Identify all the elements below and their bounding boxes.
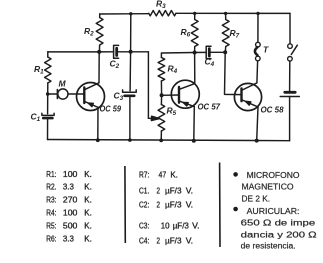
wire mic junction down to C1: [47, 94, 49, 114]
node mic junction: [46, 92, 50, 96]
svg-text:R5:: R5:: [46, 220, 56, 230]
svg-text:dancia y 200 Ω: dancia y 200 Ω: [241, 230, 317, 239]
wire C1 to bottom rail: [47, 120, 49, 140]
wire R6 bottom to C4 left: [195, 51, 206, 53]
node junction R6 bottom / OC57 collector / C4: [193, 51, 197, 55]
svg-text:3.3: 3.3: [63, 182, 74, 192]
wire switch to battery: [289, 61, 291, 91]
wire OC58 collector up to earphone: [256, 61, 259, 83]
svg-text:MICROFONO: MICROFONO: [247, 171, 300, 180]
svg-text:M: M: [59, 79, 67, 89]
svg-text:V.: V.: [186, 200, 193, 210]
node junction C3 / bottom rail: [128, 138, 132, 142]
svg-text:C1: C1: [31, 112, 41, 124]
node junction OC58 emitter / bottom rail: [255, 139, 259, 143]
wire top rail corner down to switch: [289, 13, 291, 43]
wire R1 bottom to mic junction: [47, 83, 49, 94]
wire junction down to C3: [129, 52, 132, 91]
divider line 2: [219, 163, 221, 248]
svg-text:K.: K.: [84, 169, 92, 179]
svg-text:R1:: R1:: [46, 169, 56, 179]
wire top rail down to earphone: [257, 13, 259, 42]
wire battery to bottom rail corner: [289, 97, 291, 141]
wire microphone to OC59 base: [68, 93, 84, 95]
svg-text:R7: R7: [230, 28, 240, 40]
svg-text:R2: R2: [84, 26, 94, 38]
node junction R5 / bottom rail: [159, 139, 163, 143]
svg-text:C1.: C1.: [139, 186, 149, 196]
node junction C2 / branch: [129, 50, 133, 54]
node junction top rail / R7: [224, 12, 227, 15]
bullet 1: [233, 172, 238, 177]
svg-text:K.: K.: [170, 170, 178, 180]
svg-text:R6: R6: [181, 27, 191, 39]
switch S: [288, 44, 298, 61]
wire junction A to C2 left plate: [99, 51, 113, 53]
divider line 1: [124, 166, 126, 243]
wire OC59 collector up to junction A: [98, 52, 100, 83]
svg-text:V.: V.: [186, 236, 193, 246]
svg-text:V.: V.: [192, 220, 199, 230]
node junction top rail / R6: [193, 12, 196, 15]
svg-text:R3: R3: [156, 0, 166, 10]
svg-text:K.: K.: [84, 195, 92, 205]
svg-text:AURICULAR:: AURICULAR:: [247, 207, 300, 216]
wire OC57 collector up to R6 junction: [194, 53, 196, 84]
wire C2 right lead to branch junction: [118, 51, 130, 53]
svg-text:C3:: C3:: [139, 220, 149, 230]
svg-text:K.: K.: [84, 220, 92, 230]
wire OC58 emitter down to bottom rail: [257, 107, 258, 141]
svg-text:R6:: R6:: [46, 233, 56, 243]
wire OC59 emitter down to bottom rail: [97, 107, 99, 140]
wire R4 bottom to base junction: [160, 81, 162, 95]
svg-text:µF/3: µF/3: [165, 236, 182, 246]
svg-text:270: 270: [63, 195, 78, 205]
svg-text:2: 2: [157, 186, 161, 196]
resistor R2: [96, 14, 103, 52]
svg-text:K.: K.: [84, 233, 92, 243]
svg-text:T: T: [263, 45, 269, 55]
resistor R7: [222, 13, 229, 52]
svg-text:R1: R1: [34, 64, 44, 76]
svg-text:2: 2: [157, 236, 161, 246]
svg-text:10: 10: [161, 220, 170, 230]
wire bottom rail: [48, 140, 290, 141]
svg-text:µF/3: µF/3: [165, 186, 182, 196]
node junction OC57 emitter / bottom rail: [192, 139, 196, 143]
svg-text:C4:: C4:: [139, 236, 149, 246]
transistor Q2 OC57: [171, 80, 199, 108]
wire wiper vertical drop: [147, 52, 149, 119]
capacitor C3: [123, 90, 137, 96]
wire mic junction to microphone: [48, 93, 58, 95]
svg-text:2: 2: [157, 200, 161, 210]
battery B1: [280, 92, 299, 96]
wire OC57 base: [162, 94, 179, 96]
svg-text:de resistencia.: de resistencia.: [241, 242, 296, 251]
svg-text:K.: K.: [84, 182, 92, 192]
svg-text:100: 100: [63, 208, 78, 218]
svg-text:C2: C2: [110, 59, 120, 71]
bullet 2: [233, 207, 238, 212]
node junction A (R2 bottom / C2 / OC59 collector): [97, 50, 101, 54]
svg-text:µF/3: µF/3: [165, 200, 182, 210]
svg-text:R2.: R2.: [46, 182, 56, 192]
wire top rail down to C2 junction: [130, 14, 132, 52]
resistor R1: [45, 57, 51, 83]
svg-text:DE 2 K.: DE 2 K.: [242, 194, 271, 203]
resistor R5 (volume control): [158, 105, 165, 132]
svg-text:MAGNETICO: MAGNETICO: [242, 183, 294, 192]
svg-text:K.: K.: [84, 208, 92, 218]
wire OC57 emitter down to bottom rail: [193, 107, 196, 141]
wiper arrow onto R5: [148, 117, 153, 119]
svg-text:R5: R5: [167, 106, 177, 118]
svg-text:V.: V.: [186, 186, 193, 196]
node junction R7 bottom / C4 / OC58 base drop: [223, 50, 227, 54]
svg-text:µF/3: µF/3: [173, 220, 189, 230]
svg-text:100: 100: [63, 169, 78, 179]
microphone M: [57, 89, 68, 99]
node junction R4/R5/OC57 base: [160, 93, 164, 97]
resistor R4: [158, 58, 165, 82]
svg-text:R4: R4: [168, 64, 178, 76]
svg-text:47: 47: [159, 170, 167, 180]
wire R1 top corner: [47, 52, 49, 57]
capacitor C4: [206, 46, 211, 58]
svg-text:R3:: R3:: [46, 195, 56, 205]
node junction OC59 emitter / bottom rail: [96, 138, 100, 142]
resistor R3: [149, 11, 176, 16]
svg-text:R7:: R7:: [139, 170, 149, 180]
svg-text:C4: C4: [205, 57, 215, 69]
svg-text:650 Ω de impe: 650 Ω de impe: [241, 219, 316, 228]
svg-text:500: 500: [63, 220, 78, 230]
svg-text:OC 58: OC 58: [261, 105, 284, 115]
wire top rail right segment (R3 right to switch corner): [176, 12, 290, 14]
capacitor C2: [114, 45, 119, 58]
earphone T: [255, 42, 260, 61]
transistor Q1 OC59: [77, 83, 105, 111]
svg-text:R4:: R4:: [46, 208, 56, 218]
wire R4 top corner to R6 bottom: [161, 53, 194, 58]
svg-text:3.3: 3.3: [63, 233, 74, 243]
node junction top rail / earphone T: [256, 12, 259, 15]
node junction top rail / C2-C3 branch: [129, 12, 132, 15]
capacitor C1: [42, 113, 54, 118]
wire R7 junction down and right to OC58 base: [225, 52, 242, 94]
wire R5 bottom to rail: [160, 131, 162, 140]
wire C3 to bottom rail: [129, 97, 131, 140]
wire C4 right lead to R7 bottom junction: [211, 51, 225, 53]
wire base junction to R5 top: [160, 95, 162, 104]
svg-text:C2:: C2:: [139, 200, 149, 210]
svg-text:OC 59: OC 59: [100, 104, 122, 114]
transistor Q3 OC58: [234, 83, 261, 111]
wire top rail left segment (R2 top to R3 left): [100, 13, 149, 15]
wire R1-top to R2-bottom junction: [48, 51, 100, 53]
wire branch junction to volume wiper drop: [131, 51, 149, 53]
resistor R6: [191, 13, 198, 52]
svg-text:OC 57: OC 57: [198, 102, 222, 112]
